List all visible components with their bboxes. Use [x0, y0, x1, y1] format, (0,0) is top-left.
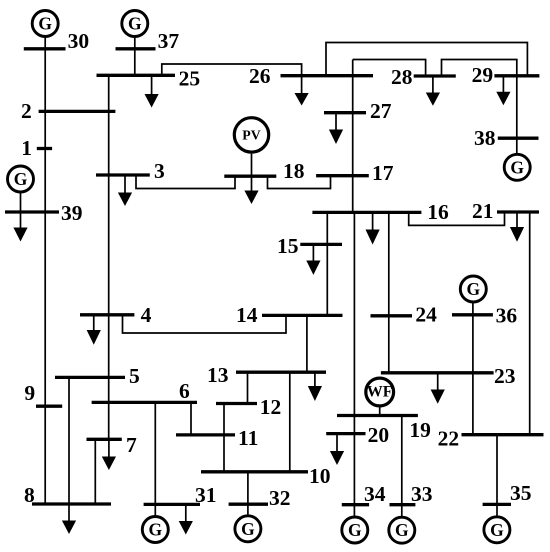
- svg-text:26: 26: [249, 64, 271, 88]
- svg-text:2: 2: [21, 99, 32, 123]
- generator G36: [460, 276, 486, 302]
- svg-text:5: 5: [129, 364, 140, 388]
- generator G33: [389, 517, 415, 543]
- bus 31 busbar: [144, 503, 200, 506]
- load arrow bus 4: [87, 315, 101, 345]
- bus 28 busbar: [414, 74, 456, 77]
- wire G37-25: [134, 37, 136, 75]
- bus 33 busbar: [390, 503, 416, 506]
- bus 13 busbar: [236, 371, 326, 374]
- wire 19-33-G33: [401, 416, 403, 517]
- bus 37 busbar: [116, 47, 156, 50]
- bus 6 busbar: [92, 401, 197, 404]
- wire 29-38-G38: [516, 76, 518, 154]
- svg-text:G: G: [490, 520, 504, 540]
- generator G31: [142, 517, 168, 543]
- bus 26 busbar: [281, 74, 374, 77]
- wire 18-17: [268, 176, 331, 189]
- bus 5 busbar: [55, 376, 125, 379]
- svg-text:33: 33: [411, 482, 433, 506]
- svg-text:1: 1: [21, 136, 32, 160]
- bus 20 busbar: [326, 432, 365, 435]
- wind farm WF: [366, 378, 394, 406]
- bus 25 busbar: [97, 74, 176, 77]
- generator G37: [122, 11, 148, 37]
- svg-text:3: 3: [154, 159, 165, 183]
- svg-text:37: 37: [158, 29, 180, 53]
- bus 11 busbar: [176, 433, 235, 436]
- svg-text:24: 24: [415, 302, 437, 326]
- svg-text:20: 20: [368, 423, 390, 447]
- load arrow bus 18: [244, 176, 258, 204]
- generator G38: [504, 154, 530, 180]
- load arrow bus 7: [102, 439, 116, 470]
- bus 14 busbar: [262, 314, 343, 317]
- wire 13-10: [289, 372, 291, 472]
- svg-text:31: 31: [195, 483, 217, 507]
- svg-text:36: 36: [496, 303, 518, 327]
- bus 9 busbar: [36, 405, 62, 408]
- bus 8 busbar: [32, 502, 111, 505]
- bus 17 busbar: [316, 174, 369, 177]
- svg-text:27: 27: [370, 99, 392, 123]
- wire 7-8: [94, 439, 96, 504]
- bus 12 busbar: [216, 402, 257, 405]
- generator G35: [484, 517, 510, 543]
- svg-text:G: G: [14, 169, 28, 189]
- bus 36 busbar: [452, 313, 493, 316]
- svg-text:10: 10: [309, 464, 331, 488]
- wire 14-13: [306, 315, 308, 372]
- svg-text:4: 4: [141, 303, 152, 327]
- bus 18 busbar: [224, 175, 276, 178]
- svg-text:32: 32: [269, 486, 291, 510]
- load arrow bus 8: [62, 504, 76, 534]
- svg-text:WF: WF: [367, 384, 393, 401]
- bus 35 busbar: [483, 503, 511, 506]
- bus 1 busbar: [37, 147, 52, 150]
- bus 10 busbar: [201, 470, 308, 473]
- svg-text:34: 34: [364, 482, 386, 506]
- wire WF-19: [379, 407, 381, 415]
- svg-text:G: G: [241, 519, 255, 539]
- wire 26-29: [326, 43, 527, 76]
- svg-text:PV: PV: [242, 127, 260, 142]
- wire 25-26: [162, 64, 302, 76]
- wire 16-19-20-34-G34 trunk: [353, 212, 355, 516]
- svg-text:29: 29: [472, 63, 494, 87]
- bus 27 busbar: [324, 111, 366, 114]
- generator G32: [235, 516, 261, 542]
- svg-text:G: G: [348, 520, 362, 540]
- svg-text:25: 25: [179, 67, 201, 91]
- load arrow bus 16: [366, 212, 380, 244]
- generator G34: [342, 517, 368, 543]
- wire 12-11-10: [223, 404, 225, 472]
- load arrow bus 13: [308, 372, 322, 401]
- bus 23 busbar: [381, 371, 494, 374]
- svg-text:G: G: [38, 14, 52, 34]
- svg-text:28: 28: [391, 65, 413, 89]
- wire 16-21: [409, 212, 505, 225]
- svg-text:30: 30: [68, 29, 90, 53]
- bus 24 busbar: [371, 314, 413, 317]
- load arrow bus 29: [496, 76, 510, 105]
- load arrow bus 25: [145, 75, 159, 107]
- svg-text:13: 13: [207, 363, 229, 387]
- svg-text:6: 6: [179, 379, 190, 403]
- load arrow bus 20: [330, 434, 344, 465]
- bus 38 busbar: [498, 137, 539, 140]
- wire 25-2-3-4-5-6-7 trunk: [108, 75, 110, 439]
- wire 6-31-G31: [154, 402, 156, 516]
- svg-text:21: 21: [472, 199, 494, 223]
- svg-text:12: 12: [260, 395, 282, 419]
- wire 30-2-1-39-9-8 (left trunk): [44, 37, 46, 504]
- bus 4 busbar: [80, 313, 134, 316]
- svg-text:G: G: [148, 520, 162, 540]
- bus 32 busbar: [229, 503, 268, 506]
- svg-text:14: 14: [236, 303, 258, 327]
- svg-text:G: G: [128, 14, 142, 34]
- wire G39-39: [20, 193, 22, 213]
- wire 22-35-G35: [496, 435, 498, 517]
- svg-text:9: 9: [24, 381, 35, 405]
- load arrow bus 26: [295, 76, 309, 106]
- bus 21 busbar: [497, 210, 539, 213]
- bus 39 busbar: [5, 210, 59, 213]
- svg-text:38: 38: [474, 126, 496, 150]
- bus 29 busbar: [494, 74, 539, 77]
- load arrow bus 31: [179, 504, 193, 534]
- bus 16 busbar: [312, 211, 421, 214]
- svg-text:15: 15: [277, 234, 299, 258]
- load arrow bus 39: [13, 212, 27, 242]
- wire 28-29: [442, 60, 517, 77]
- bus 2 busbar: [39, 110, 116, 113]
- generator G30: [32, 11, 58, 37]
- load arrow bus 28: [426, 76, 440, 106]
- bus 15 busbar: [300, 243, 342, 246]
- svg-text:11: 11: [238, 426, 258, 450]
- wire 10-32-G32: [247, 472, 249, 516]
- svg-text:G: G: [466, 279, 480, 299]
- load arrow bus 27: [329, 113, 343, 144]
- wire 3-18: [136, 175, 235, 189]
- svg-text:39: 39: [61, 201, 83, 225]
- generator G39: [8, 166, 34, 192]
- svg-text:35: 35: [510, 481, 532, 505]
- PV source: [234, 118, 268, 152]
- svg-text:18: 18: [283, 159, 305, 183]
- svg-text:22: 22: [438, 427, 460, 451]
- svg-text:G: G: [395, 520, 409, 540]
- wire PV-18: [251, 154, 253, 177]
- wire 21-22: [529, 212, 531, 435]
- bus 34 busbar: [342, 503, 369, 506]
- wire 16-15-14: [326, 212, 328, 315]
- svg-text:16: 16: [427, 200, 449, 224]
- load arrow bus 21: [510, 212, 524, 242]
- bus 7 busbar: [87, 438, 122, 441]
- svg-text:G: G: [510, 157, 524, 177]
- wire 5-8: [68, 377, 70, 504]
- bus 30 busbar: [24, 47, 66, 50]
- wire 16-24-23: [388, 212, 390, 372]
- svg-text:23: 23: [494, 364, 516, 388]
- bus 3 busbar: [96, 173, 150, 176]
- svg-text:19: 19: [409, 418, 431, 442]
- bus 22 busbar: [462, 433, 544, 436]
- load arrow bus 15: [306, 244, 320, 275]
- bus 19 busbar: [337, 414, 418, 417]
- wire 4-14: [123, 315, 287, 333]
- wire 6-11: [190, 402, 192, 435]
- wire G36-36-23-22: [472, 303, 474, 435]
- load arrow bus 3: [118, 175, 132, 206]
- svg-text:7: 7: [126, 433, 137, 457]
- wire 26-27-17-16 trunk: [352, 60, 354, 213]
- load arrow bus 23: [431, 373, 445, 404]
- wire 26-28: [353, 60, 426, 77]
- svg-text:8: 8: [24, 483, 35, 507]
- svg-text:17: 17: [372, 161, 394, 185]
- wire 13-12: [247, 372, 249, 403]
